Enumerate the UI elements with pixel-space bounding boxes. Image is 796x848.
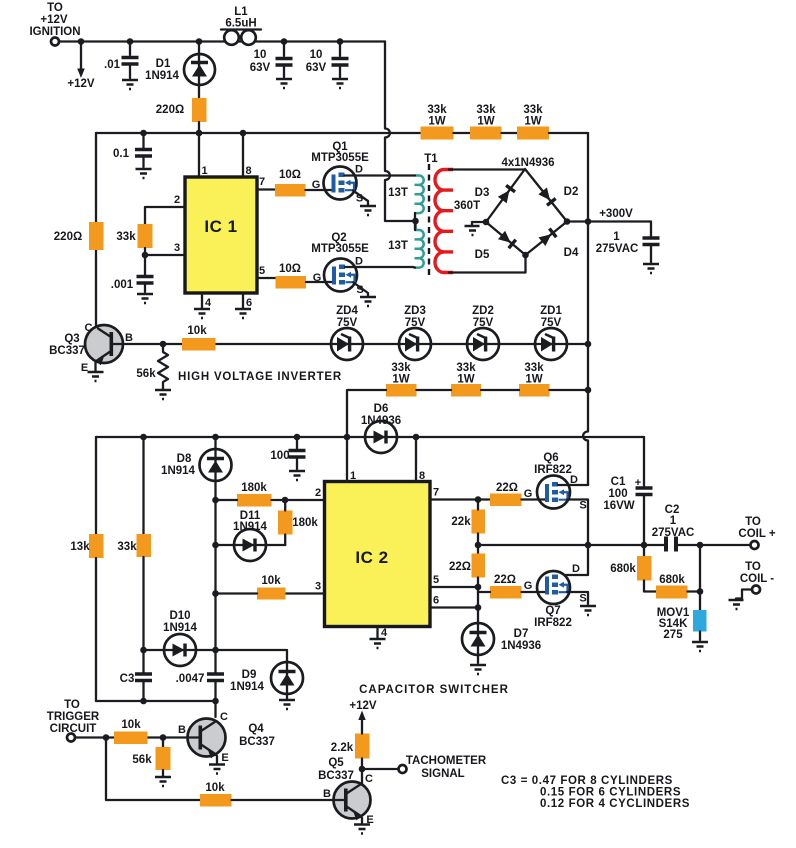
svg-text:33k: 33k [391, 362, 411, 374]
wire 10R to Q1 gate [306, 189, 331, 191]
wire Q6 drain to +300V rail [558, 484, 588, 485]
svg-text:L1: L1 [234, 6, 248, 18]
svg-text:D8: D8 [177, 453, 192, 465]
svg-text:1N914: 1N914 [145, 70, 179, 82]
resistor 22 ohm (gate Q6) [490, 482, 522, 506]
ground Q5 emitter [354, 825, 370, 834]
wire 10k to Q5 base [232, 799, 336, 801]
svg-text:D: D [572, 563, 580, 575]
wire 680k-v to 680k-h [644, 581, 656, 592]
svg-text:IC 2: IC 2 [355, 548, 388, 567]
junction 100 cap at bus [294, 434, 301, 441]
ground below 100 cap [289, 471, 305, 480]
wire 33k row1 to +300V rail top [549, 132, 588, 134]
resistor 10k (Q5 base) [200, 782, 232, 807]
pin 7 wire IC1 [257, 188, 275, 190]
svg-text:1W: 1W [524, 116, 541, 128]
svg-text:0.1: 0.1 [113, 148, 130, 160]
wire 10R to Q2 gate [306, 281, 330, 283]
capacitor .01 [104, 42, 139, 79]
svg-text:Q3: Q3 [64, 333, 79, 345]
wire +12V top rail [59, 40, 385, 42]
resistor 10 ohm (gate Q2) [276, 263, 307, 289]
transistor Q5 BC337 [318, 757, 374, 826]
wire +12V logic bus y=133 [96, 132, 421, 134]
wire D10 node to D9 [216, 650, 288, 662]
svg-text:G: G [524, 488, 533, 500]
transformer T1 core (dashed) [428, 164, 430, 278]
wire 180k vertical leads [284, 500, 286, 545]
svg-text:T1: T1 [424, 153, 438, 165]
pin 2 wire IC1 [145, 207, 185, 224]
transistor Q3 BC337 [49, 322, 133, 374]
transformer T1 primary top winding 13T [388, 176, 424, 222]
wire D9 to ground [286, 694, 288, 699]
pin 4 wire IC2 [376, 627, 378, 639]
wire secondary top to bridge [449, 168, 525, 170]
node TO TRIGGER CIRCUIT terminal [47, 699, 100, 742]
svg-text:G: G [312, 179, 321, 191]
ground pin 4 IC2 [370, 639, 386, 648]
svg-text:1N914: 1N914 [230, 681, 264, 693]
junction at +12V arrow [78, 38, 85, 45]
svg-text:COIL +: COIL + [738, 528, 775, 540]
junction row2 at +300V rail [585, 387, 592, 394]
wire left +12V column down to 220R and Q3 collector [95, 133, 97, 328]
svg-text:HIGH VOLTAGE INVERTER: HIGH VOLTAGE INVERTER [178, 371, 342, 383]
svg-text:+300V: +300V [599, 208, 633, 220]
svg-text:1W: 1W [477, 116, 494, 128]
resistor 10 ohm (gate Q1) [275, 169, 306, 197]
svg-text:180k: 180k [241, 482, 267, 494]
node TO COIL - terminal [740, 561, 774, 594]
ground below 0.1 [136, 169, 152, 178]
svg-text:3: 3 [174, 242, 180, 254]
svg-text:6: 6 [246, 297, 252, 309]
svg-text:100: 100 [270, 450, 289, 462]
svg-text:D5: D5 [475, 249, 490, 261]
diode D2 [538, 186, 578, 205]
resistor 56k (Q4 base) [132, 738, 170, 777]
resistor 13k [70, 534, 103, 558]
svg-text:4x1N4936: 4x1N4936 [501, 157, 554, 169]
ground at bridge left corner [465, 226, 480, 235]
wire 22R gate Q7 lead [478, 591, 543, 593]
resistor 33k 1W (row2 #3) [519, 362, 550, 397]
svg-text:C3: C3 [120, 673, 135, 685]
wire left column down from bus [95, 437, 97, 534]
wire Q6 source to half-bridge node [567, 500, 588, 546]
junction at D1 [196, 38, 203, 45]
svg-text:2: 2 [315, 487, 321, 499]
junction bus pin1 column [344, 434, 351, 441]
svg-text:TO: TO [745, 561, 761, 573]
wire node down to Q7 drain [564, 545, 588, 575]
wire MOV to ground [699, 632, 701, 641]
svg-text:1: 1 [613, 231, 620, 243]
transistor Q7 IRF822 [524, 563, 587, 629]
resistor 33k 1W (row1 #2) [470, 104, 502, 140]
zener ZD1 75V [535, 305, 567, 360]
svg-text:IC 1: IC 1 [204, 217, 237, 236]
svg-text:E: E [81, 362, 88, 374]
svg-text:275VAC: 275VAC [652, 527, 695, 539]
capacitor C2 1 275VAC [652, 504, 695, 552]
svg-text:16VW: 16VW [603, 500, 634, 512]
svg-text:7: 7 [433, 487, 439, 499]
pin 6 wire IC1 [242, 293, 244, 308]
pin 8 wire IC2 [415, 437, 417, 482]
svg-text:6.5uH: 6.5uH [225, 18, 256, 30]
resistor 33k 1W (row2 #2) [451, 362, 481, 397]
svg-text:33k: 33k [116, 231, 136, 243]
svg-text:1W: 1W [392, 374, 409, 386]
svg-text:1N4936: 1N4936 [501, 640, 541, 652]
junction MOV tap [697, 542, 704, 549]
junction D10 left [140, 647, 147, 654]
wire C3 bottom rail [96, 701, 216, 717]
svg-text:100: 100 [608, 488, 627, 500]
svg-text:0.12 FOR 4 CYCLINDERS: 0.12 FOR 4 CYCLINDERS [540, 798, 690, 810]
wire MOV column [699, 545, 701, 610]
svg-text:.0047: .0047 [176, 673, 205, 685]
ground coil- [729, 600, 744, 609]
svg-text:2.2k: 2.2k [331, 742, 354, 754]
svg-text:10: 10 [254, 49, 267, 61]
svg-text:1: 1 [670, 515, 677, 527]
svg-text:.01: .01 [104, 59, 121, 71]
diode D1 1N914 [145, 42, 215, 99]
wire 33k column down to D10 [142, 557, 144, 650]
zener ZD2 75V [467, 305, 499, 360]
svg-text:+12V: +12V [349, 700, 377, 712]
resistor 2.2k [331, 734, 370, 770]
svg-text:56k: 56k [132, 754, 152, 766]
resistor 33k 1W (row1 #1) [421, 104, 454, 140]
wire trigger to Q4 base [75, 736, 190, 738]
svg-text:E: E [221, 752, 228, 764]
svg-text:33k: 33k [456, 362, 476, 374]
svg-text:ZD3: ZD3 [404, 305, 426, 317]
wire D7 to ground [477, 655, 479, 663]
junction .0047 bottom / Q4 collector [212, 698, 219, 705]
svg-text:10k: 10k [261, 575, 281, 587]
ground Q2 source [360, 297, 376, 306]
wire Q5 emitter to ground [361, 816, 363, 823]
svg-text:D9: D9 [242, 669, 257, 681]
wire half-bridge node across [478, 544, 644, 546]
diode D3 [475, 185, 515, 203]
junction C1 at node [641, 542, 648, 549]
junction zener chain at +300V rail [585, 341, 592, 348]
wire D8 to 180k to pin2 [216, 499, 286, 501]
capacitor .0047 [176, 673, 224, 701]
diode D5 [475, 231, 516, 261]
ground Q7 source [580, 606, 596, 615]
capacitor 10 63V (second) [306, 42, 349, 78]
pin 7 wire IC2 [430, 498, 490, 500]
pin 3 wire IC1 [145, 254, 185, 256]
diode D10 1N914 [144, 610, 216, 666]
wire Q2 drain to transformer primary bottom [345, 266, 413, 268]
resistor 22k (half-bridge) [451, 510, 485, 534]
svg-text:63V: 63V [306, 62, 327, 74]
diode D11 1N914 [216, 510, 286, 561]
svg-text:1N914: 1N914 [233, 521, 267, 533]
wire 33k row2 [347, 390, 588, 437]
svg-text:TO: TO [64, 699, 80, 711]
svg-text:D2: D2 [564, 186, 579, 198]
svg-text:8: 8 [245, 165, 251, 177]
svg-text:C1: C1 [611, 476, 626, 488]
svg-text:360T: 360T [454, 200, 480, 212]
svg-text:ZD1: ZD1 [540, 305, 562, 317]
svg-text:G: G [524, 580, 533, 592]
node +12V arrow (Q5) [349, 700, 377, 734]
svg-text:33k: 33k [427, 104, 447, 116]
resistor 33k (column) [117, 534, 151, 557]
pin 5 wire IC2 [430, 586, 478, 588]
svg-text:S: S [579, 593, 586, 605]
svg-text:1W: 1W [457, 374, 474, 386]
svg-text:13T: 13T [388, 240, 408, 252]
wire Q4 emitter to ground [216, 754, 218, 763]
resistor 680k (horizontal) [656, 574, 688, 599]
node TO COIL + terminal [738, 516, 775, 549]
svg-text:MTP3055E: MTP3055E [311, 243, 369, 255]
ground below 56k [155, 390, 171, 399]
zener ZD4 75V [331, 305, 363, 360]
svg-text:D10: D10 [169, 610, 190, 622]
svg-text:TRIGGER: TRIGGER [47, 711, 100, 723]
wire row1 between resistors 2 [502, 132, 518, 134]
transistor Q4 BC337 [178, 711, 275, 764]
junction 56k tap (Q4) [160, 734, 167, 741]
svg-text:22Ω: 22Ω [494, 574, 516, 586]
svg-text:D: D [355, 164, 363, 176]
wire tach node to terminal [362, 768, 398, 770]
wire 33k to .001 [144, 248, 146, 275]
wire 220R output down to bus / IC1 pin1 column [198, 122, 200, 177]
capacitor .001 [111, 277, 154, 293]
capacitor 1 275VAC (+300V) [596, 231, 660, 262]
ground below .001 [137, 294, 153, 303]
svg-text:1W: 1W [525, 374, 542, 386]
svg-text:C: C [220, 711, 228, 723]
wire center tap stub [412, 221, 416, 230]
svg-text:B: B [178, 724, 186, 736]
ground below D7 [470, 665, 486, 674]
junction trigger split [103, 734, 110, 741]
svg-text:275: 275 [663, 629, 683, 641]
svg-text:CAPACITOR SWITCHER: CAPACITOR SWITCHER [359, 684, 509, 696]
ground below first 10/63V [276, 79, 292, 88]
resistor 220 ohm (left column) [54, 222, 104, 250]
inductor L1 6.5uH [221, 6, 261, 45]
svg-text:33k: 33k [117, 541, 137, 553]
wire 10k pin3 left lead [216, 592, 258, 594]
svg-text:BC337: BC337 [318, 770, 354, 782]
wire Q2 source to ground [354, 283, 369, 297]
svg-text:680k: 680k [659, 574, 685, 586]
resistor 10k (trigger) [114, 719, 148, 744]
svg-text:33k: 33k [524, 362, 544, 374]
junction cap2 [337, 38, 344, 45]
capacitor 10 63V (first) [250, 42, 293, 78]
ground below 56k Q4 [155, 777, 171, 786]
svg-text:Q7: Q7 [545, 605, 560, 617]
ground below +300V cap [643, 264, 659, 273]
wire Q1 source to ground [353, 191, 368, 206]
wire D8 column through taps [214, 500, 216, 673]
capacitor 0.1 [113, 133, 152, 167]
wire Q7 source to ground [567, 592, 588, 604]
svg-text:1N914: 1N914 [163, 622, 197, 634]
svg-text:+12V: +12V [67, 78, 95, 90]
junction bridge left corner [483, 219, 490, 226]
transistor Q6 IRF822 [524, 452, 587, 512]
resistor 180k (vertical) [278, 511, 318, 535]
wire 680k-h to MOV column [688, 590, 701, 592]
svg-text:S: S [579, 500, 586, 512]
svg-text:B: B [323, 788, 331, 800]
ground below MOV [692, 642, 708, 651]
node TACHOMETER SIGNAL terminal [399, 755, 487, 780]
junction tach node [359, 766, 366, 773]
transformer T1 primary bottom winding 13T [388, 221, 424, 268]
svg-text:5: 5 [259, 265, 265, 277]
svg-text:6: 6 [433, 595, 439, 607]
junction at .01 [127, 38, 134, 45]
wire secondary bottom to bridge [449, 255, 526, 273]
transistor Q2 MTP3055E [311, 232, 369, 296]
svg-text:13T: 13T [388, 187, 408, 199]
junction 56k tap [160, 341, 167, 348]
junction half-bridge node [585, 542, 592, 549]
svg-text:220Ω: 220Ω [156, 104, 184, 116]
svg-text:ZD2: ZD2 [472, 305, 494, 317]
junction D10 right [212, 647, 219, 654]
svg-text:BC337: BC337 [239, 736, 275, 748]
pin 8 wire IC1 [242, 133, 244, 177]
varistor MOV1 S14K 275 [657, 607, 707, 641]
pin 1 wire IC2 [346, 437, 348, 482]
capacitor C1 100 16VW [603, 437, 652, 544]
svg-text:1: 1 [350, 470, 356, 482]
op-amp IC2 box [325, 482, 431, 627]
capacitor 100 (bus) [270, 437, 305, 469]
svg-text:BC337: BC337 [49, 345, 85, 357]
svg-text:10Ω: 10Ω [279, 169, 301, 181]
pin 3 wire IC2 [286, 592, 325, 594]
wire bridge left corner to ground [472, 222, 486, 225]
svg-text:10k: 10k [205, 782, 225, 794]
svg-text:33k: 33k [523, 104, 543, 116]
junction +300V rail [585, 218, 592, 225]
svg-text:IRF822: IRF822 [534, 617, 572, 629]
diode D7 1N4936 [462, 623, 541, 655]
junction cap1 [281, 38, 288, 45]
wire +300V output [567, 222, 651, 237]
junction bridge right corner [564, 218, 571, 225]
svg-text:0.15 FOR 6 CYLINDERS: 0.15 FOR 6 CYLINDERS [540, 787, 681, 799]
junction D8 at bus [212, 434, 219, 441]
svg-text:Q6: Q6 [543, 452, 558, 464]
svg-text:C3 = 0.47 FOR 8 CYLINDERS: C3 = 0.47 FOR 8 CYLINDERS [501, 775, 673, 787]
pin 6 wire IC2 [430, 606, 478, 608]
wire Q3 base to zener chain [123, 343, 588, 345]
resistor 220 ohm (from D1) [156, 98, 207, 122]
svg-text:63V: 63V [250, 62, 271, 74]
resistor 22 ohm (gate Q7) [490, 574, 522, 599]
svg-text:8: 8 [419, 470, 425, 482]
pin 2 wire IC2 [285, 499, 325, 501]
diode D8 1N914 [161, 437, 231, 500]
zener ZD3 75V [399, 305, 431, 360]
wire trigger down to Q5 base [106, 738, 200, 801]
svg-text:56k: 56k [136, 368, 156, 380]
svg-text:7: 7 [259, 176, 265, 188]
junction bus/pin1 [196, 130, 203, 137]
svg-text:.001: .001 [111, 279, 134, 291]
ground pin 6 IC1 [235, 309, 251, 318]
svg-text:D4: D4 [564, 247, 579, 259]
wire C2 to coil+ terminal [678, 544, 750, 546]
wire 22k leads [477, 500, 479, 554]
ground below D9 [279, 700, 295, 709]
svg-text:10k: 10k [187, 325, 207, 337]
pin 4 wire IC1 [201, 293, 203, 308]
svg-text:180k: 180k [292, 517, 318, 529]
svg-text:33k: 33k [476, 104, 496, 116]
transformer T1 secondary winding 360T [435, 170, 480, 273]
svg-text:D: D [355, 256, 363, 268]
svg-text:1: 1 [201, 165, 207, 177]
wire supply bus y=437 [96, 436, 644, 438]
node TO +12V IGNITION terminal [29, 2, 80, 46]
node +12V arrow [67, 42, 95, 91]
wire 22R vertical bottom to pin5 node [477, 578, 479, 623]
wire Q5 collector up to 2.2k node [360, 769, 363, 785]
op-amp IC1 box [185, 177, 257, 293]
ground Q3 emitter [88, 372, 104, 381]
ground pin 4 IC1 [194, 309, 210, 318]
wire node to C2 [644, 544, 664, 546]
svg-text:D1: D1 [156, 58, 171, 70]
ground Q1 source [360, 206, 376, 215]
svg-text:22Ω: 22Ω [496, 482, 518, 494]
junction C3 bottom [140, 698, 147, 705]
capacitor C3 [120, 650, 152, 701]
ground below .01 [122, 80, 138, 89]
svg-text:D6: D6 [374, 403, 389, 415]
wire +12V feed down to transformer center tap (hops over two wires) [385, 42, 412, 222]
resistor 10k (Q3 base) [182, 325, 216, 351]
junction bus/0.1 [140, 130, 147, 137]
svg-text:D3: D3 [475, 187, 490, 199]
svg-text:275VAC: 275VAC [596, 243, 639, 255]
svg-text:B: B [125, 332, 133, 344]
svg-text:Q5: Q5 [328, 757, 344, 769]
wire Q3 emitter to ground [94, 362, 96, 371]
resistor 33k 1W (row2 #1) [386, 362, 417, 397]
junction bridge bottom corner [522, 252, 529, 259]
svg-text:1N4936: 1N4936 [361, 415, 401, 427]
svg-text:SIGNAL: SIGNAL [421, 768, 464, 780]
svg-text:Q4: Q4 [248, 723, 264, 735]
resistor 56k (zigzag) [136, 344, 168, 389]
junction pin7/22k [475, 496, 482, 503]
